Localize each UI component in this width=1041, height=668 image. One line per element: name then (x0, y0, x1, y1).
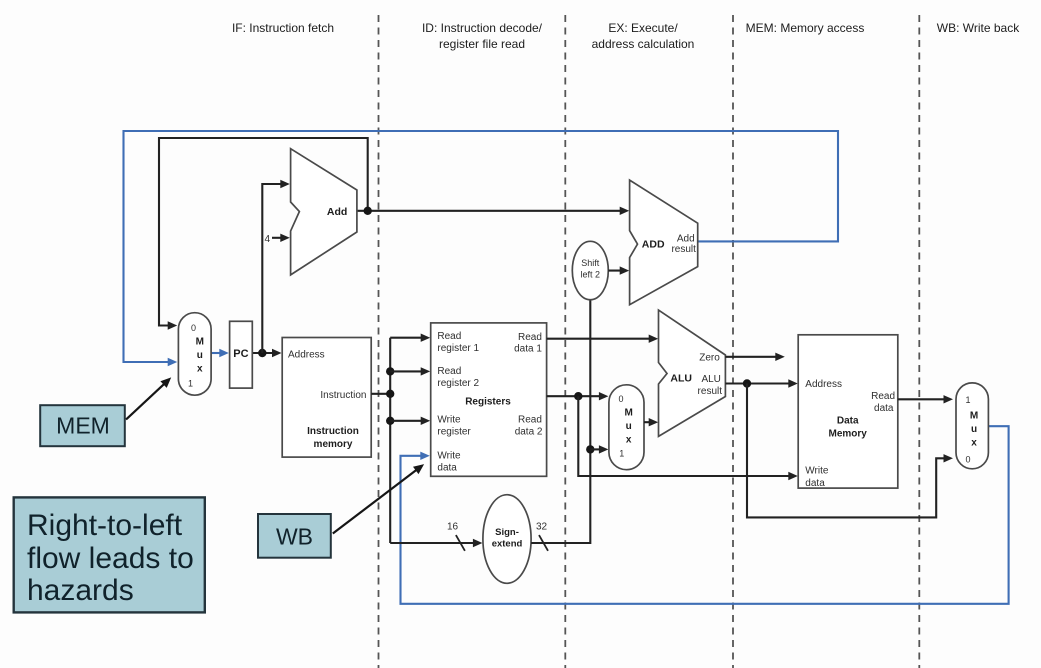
svg-text:register 1: register 1 (437, 343, 479, 354)
wire PC mux output to PC (blue) (211, 349, 229, 357)
junction PC output (258, 349, 266, 357)
svg-text:32: 32 (536, 522, 548, 533)
wire Zero output (725, 353, 784, 361)
wire bus to Read register 2 (390, 367, 430, 375)
svg-text:0: 0 (191, 323, 196, 333)
svg-text:data 2: data 2 (515, 427, 543, 438)
svg-text:memory: memory (314, 439, 353, 450)
wire Add result to ADD input (357, 207, 629, 215)
junction ALU result (743, 379, 751, 387)
wire branch target (blue): ADD result to PC mux input 1 (124, 131, 839, 366)
pc register PC (230, 321, 253, 388)
svg-text:Read: Read (518, 415, 542, 426)
junction Add result (364, 207, 372, 215)
svg-text:flow leads to: flow leads to (27, 542, 194, 575)
stage divider IF/ID (378, 15, 380, 668)
wire PC to Add top input (262, 180, 290, 353)
svg-text:M: M (970, 411, 978, 422)
junction sign-extend / ALU mux branch (586, 445, 594, 453)
svg-text:register 2: register 2 (437, 378, 479, 389)
svg-text:Instruction: Instruction (320, 390, 366, 401)
svg-text:u: u (971, 424, 977, 435)
mux M2 (ALU operand source) (609, 385, 644, 470)
wire PC+4 loop: Add result to PC mux input 0 (159, 138, 368, 330)
svg-text:1: 1 (619, 449, 624, 459)
wire mux M2 output to ALU bottom input (644, 418, 658, 426)
label 16 (447, 522, 459, 533)
svg-text:Memory: Memory (829, 429, 868, 440)
svg-text:M: M (625, 408, 633, 419)
junction bus / instruction input (386, 390, 394, 398)
wire bus to Write register (390, 417, 430, 425)
label 32 (536, 522, 548, 533)
svg-text:M: M (196, 337, 204, 348)
svg-text:16: 16 (447, 522, 459, 533)
svg-text:0: 0 (966, 455, 971, 465)
wire Read data 2 to mux M2 input 0 (547, 392, 609, 400)
wire shift-left-2 to ADD bottom input (608, 266, 629, 274)
wire Instruction output to bus (371, 393, 390, 395)
svg-text:EX: Execute/: EX: Execute/ (608, 21, 678, 35)
wire Read data to mux M3 input 1 (898, 395, 953, 403)
svg-text:Write: Write (437, 415, 461, 426)
mux M3 (write-back source) (956, 383, 988, 469)
stage divider EX/MEM (732, 15, 734, 668)
svg-text:Shift: Shift (581, 258, 600, 268)
svg-text:4: 4 (265, 234, 271, 245)
svg-text:MEM: Memory access: MEM: Memory access (746, 21, 865, 35)
svg-text:result: result (671, 244, 696, 255)
svg-text:Zero: Zero (699, 352, 720, 363)
svg-text:Add: Add (327, 206, 347, 218)
svg-text:x: x (971, 438, 977, 449)
svg-text:Write: Write (805, 466, 829, 477)
svg-text:Sign-: Sign- (495, 527, 519, 538)
svg-text:left 2: left 2 (581, 270, 601, 280)
svg-text:PC: PC (233, 348, 248, 360)
wire ALU result bypass to mux M3 input 0 (747, 384, 953, 518)
svg-text:ADD: ADD (642, 238, 665, 250)
stage label IF (232, 21, 334, 35)
slash 32-bit width mark (539, 535, 548, 551)
svg-text:address calculation: address calculation (592, 37, 695, 51)
svg-text:Instruction: Instruction (307, 426, 359, 437)
svg-text:x: x (197, 364, 203, 375)
svg-text:Address: Address (288, 349, 325, 360)
svg-text:1: 1 (966, 395, 971, 405)
wire bus to Sign-extend (16-bit) (390, 539, 482, 547)
wire Read data 1 to ALU top input (547, 335, 659, 343)
svg-text:u: u (197, 350, 203, 361)
wire sign-extend branch to mux M2 input 1 (590, 445, 608, 453)
svg-text:result: result (698, 386, 723, 397)
svg-text:Write: Write (437, 451, 461, 462)
svg-text:data: data (437, 463, 457, 474)
svg-text:Right-to-left: Right-to-left (27, 509, 183, 542)
stage label MEM (746, 21, 865, 35)
svg-text:ID: Instruction decode/: ID: Instruction decode/ (422, 21, 543, 35)
callout WB (258, 514, 331, 558)
wire ALU result to Data memory Address (725, 379, 797, 387)
svg-text:Data: Data (837, 416, 859, 427)
svg-text:data 1: data 1 (514, 344, 542, 355)
label constant 4 (265, 234, 271, 245)
svg-text:hazards: hazards (27, 574, 134, 607)
adder Add U1 (291, 149, 357, 275)
wire bus to Read register 1 (390, 334, 430, 342)
svg-text:WB: Write back: WB: Write back (937, 21, 1020, 35)
instruction bus vertical (389, 338, 391, 543)
svg-text:register: register (437, 427, 471, 438)
adder ADD U2 (630, 180, 698, 305)
svg-text:Address: Address (805, 379, 842, 390)
mux M1 (PC source) (178, 313, 211, 396)
stage divider MEM/WB (918, 15, 920, 668)
svg-text:Read: Read (437, 331, 461, 342)
junction read data 2 branch (574, 392, 582, 400)
svg-text:ALU: ALU (701, 374, 720, 385)
shifter Shift left 2 (572, 241, 608, 299)
arrow MEM callout to PC mux (126, 377, 171, 419)
arrow WB callout to Registers Write data (333, 464, 424, 533)
wire constant 4 to Add bottom input (272, 234, 290, 242)
svg-text:x: x (626, 435, 632, 446)
svg-text:ALU: ALU (670, 373, 692, 385)
svg-text:Read: Read (437, 366, 461, 377)
svg-text:MEM: MEM (56, 413, 110, 439)
svg-text:0: 0 (619, 394, 624, 404)
svg-text:Read: Read (871, 391, 895, 402)
svg-text:u: u (626, 421, 632, 432)
junction bus / write register (386, 417, 394, 425)
alu ALU (659, 310, 726, 436)
stage label WB (937, 21, 1020, 35)
wire write-back (blue): WB mux output to Registers Write data (401, 426, 1009, 604)
svg-text:register file read: register file read (439, 37, 525, 51)
wire sign-extend output to shift-left-2 and ALU mux (531, 300, 590, 543)
svg-text:IF: Instruction fetch: IF: Instruction fetch (232, 21, 334, 35)
stage divider ID/EX (564, 15, 566, 668)
svg-text:extend: extend (492, 539, 523, 550)
svg-text:data: data (874, 403, 894, 414)
sign extend unit (483, 495, 531, 584)
registers file (431, 323, 547, 476)
svg-text:Registers: Registers (465, 397, 511, 408)
instruction memory (282, 338, 371, 458)
wire PC output to Instruction memory Address (252, 349, 281, 357)
callout right-to-left note (14, 497, 205, 612)
wire read data 2 to Data memory Write data (578, 396, 798, 480)
stage label ID (422, 21, 543, 51)
slash 16-bit width mark (456, 535, 465, 551)
data memory (798, 335, 898, 489)
svg-text:WB: WB (276, 524, 313, 550)
svg-text:Read: Read (518, 332, 542, 343)
callout MEM (40, 405, 125, 446)
svg-text:data: data (805, 478, 825, 489)
stage label EX (592, 21, 695, 51)
junction bus / read register 2 (386, 367, 394, 375)
svg-text:1: 1 (188, 379, 193, 389)
